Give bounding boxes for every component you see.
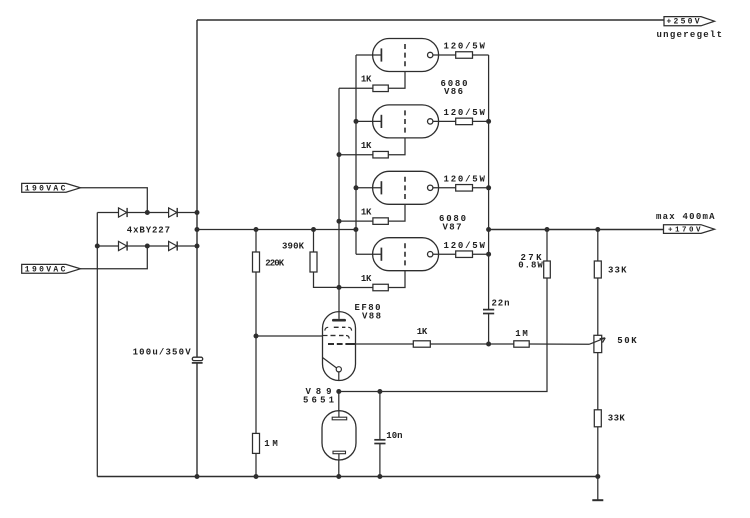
wire 1M to 50K wiper <box>529 343 589 345</box>
resistor 220K <box>253 252 260 272</box>
svg-text:4xBY227: 4xBY227 <box>127 226 170 236</box>
junction row2-left rail <box>95 244 100 249</box>
wire +250V raw supply top rail <box>197 19 664 21</box>
resistor 1K grid stopper V86b <box>373 151 388 158</box>
junction AC2-row2 <box>145 244 150 249</box>
svg-text:ungeregelt: ungeregelt <box>657 30 723 40</box>
wire +170V output line <box>489 229 664 231</box>
terminal 190VAC upper <box>22 183 81 193</box>
resistor 1K g1 stopper <box>413 341 430 347</box>
capacitor 10n <box>374 440 385 444</box>
wire 22n top lead <box>488 308 490 310</box>
junction ground V89 <box>336 474 341 479</box>
resistor 1M lower <box>253 433 260 453</box>
svg-text:V88: V88 <box>362 312 381 322</box>
potentiometer 50K <box>590 335 606 352</box>
triode 6080 V87a <box>356 171 456 204</box>
terminal +170V <box>664 225 715 235</box>
wire EF80 anode top lead <box>338 312 340 319</box>
wire 50K to 33K lower <box>597 353 599 410</box>
wire 27K top lead <box>546 230 548 262</box>
ground <box>592 477 603 501</box>
wire 1K to grid rail V86b <box>339 154 373 156</box>
junction cathode rail V87b <box>486 252 491 257</box>
junction grid rail 1K-4 / 390K <box>337 285 342 290</box>
junction ground 1M <box>254 474 259 479</box>
voltage reference tube 5651 V89 <box>322 411 356 460</box>
svg-text:10n: 10n <box>386 431 402 441</box>
wire 33K lower to ground rail <box>597 427 599 477</box>
resistor 120/5W cathode V87b <box>456 251 473 258</box>
junction AC1-row1 <box>145 210 150 215</box>
svg-text:22n: 22n <box>492 299 510 309</box>
svg-text:1K: 1K <box>361 75 372 85</box>
terminal +250V <box>664 17 715 27</box>
wire 10n top lead <box>379 392 381 440</box>
junction g1 22n <box>486 342 491 347</box>
junction +170V 27K <box>545 227 550 232</box>
junction row2-plus rail <box>195 244 200 249</box>
wire 120/5W to cathode rail V86a <box>473 54 489 56</box>
wire raw supply rail upper <box>196 20 198 357</box>
svg-text:50K: 50K <box>617 336 637 346</box>
svg-text:390K: 390K <box>282 242 305 252</box>
junction 10n top <box>377 389 382 394</box>
diode D3 <box>119 241 128 250</box>
label 27K 0.8W <box>518 253 543 271</box>
junction plate rail V87a <box>354 185 359 190</box>
svg-text:1K: 1K <box>417 327 428 337</box>
junction plate rail V86b <box>354 119 359 124</box>
pentode EF80 V88 <box>323 312 356 381</box>
terminal 190VAC lower <box>22 264 81 274</box>
junction +170V 33K <box>595 227 600 232</box>
wire 220K rail down <box>255 272 257 433</box>
capacitor 100u/350V <box>192 357 203 363</box>
resistor 120/5W cathode V87a <box>456 185 473 192</box>
svg-text:120/5W: 120/5W <box>444 108 486 118</box>
svg-text:1K: 1K <box>361 274 372 284</box>
resistor 33K upper <box>594 261 601 278</box>
capacitor 22n <box>483 310 494 344</box>
resistor 1K grid stopper V87b <box>373 284 388 291</box>
junction feed-plate rail <box>353 227 358 232</box>
svg-text:120/5W: 120/5W <box>444 241 486 251</box>
wire 390K top lead <box>313 230 315 253</box>
junction ground symbol <box>595 474 600 479</box>
wire g1 1K to 1M <box>430 343 514 345</box>
svg-text:V89: V89 <box>306 387 332 397</box>
resistor 1K grid stopper V87a <box>373 218 388 225</box>
svg-text:120/5W: 120/5W <box>444 174 486 184</box>
svg-text:33K: 33K <box>608 414 626 424</box>
wire diode row 2 <box>97 245 197 247</box>
resistor 1M feedback <box>514 341 529 347</box>
svg-text:1M: 1M <box>515 329 528 339</box>
resistor 120/5W cathode V86b <box>456 118 473 125</box>
label EF80 V88 <box>355 303 382 322</box>
junction grid rail 1K-2 <box>337 152 342 157</box>
wire 220K top lead <box>255 230 257 253</box>
label 6080 V86 <box>441 79 468 97</box>
wire 1M to ground rail <box>255 453 257 476</box>
junction EF80 cathode <box>336 389 341 394</box>
diode D2 <box>169 208 178 217</box>
junction cathode rail V86b <box>486 119 491 124</box>
wire 1K to grid rail V87a <box>339 220 373 222</box>
junction feed-220K <box>254 227 259 232</box>
wire grid lead V86a <box>388 72 405 89</box>
resistor 33K lower <box>594 410 601 427</box>
wire 190VAC upper feed <box>80 188 147 213</box>
diode D1 <box>119 208 128 217</box>
junction 220K rail EF80 g2 <box>254 334 259 339</box>
resistor 120/5W cathode V86a <box>456 52 473 59</box>
wire grid lead V87a <box>388 204 405 221</box>
svg-text:1K: 1K <box>361 141 372 151</box>
wire 6080 plate rail <box>355 55 357 254</box>
wire V89 bottom lead <box>338 460 340 477</box>
svg-text:V87: V87 <box>443 223 462 233</box>
junction row1-plus rail <box>195 210 200 215</box>
wire 390K to grid rail <box>314 272 340 287</box>
junction ground 10n <box>377 474 382 479</box>
svg-text:33K: 33K <box>608 266 627 276</box>
wire 33K to 50K <box>597 278 599 335</box>
triode 6080 V86b <box>356 105 456 138</box>
junction feed-390K <box>311 227 316 232</box>
wire 120/5W to cathode rail V86b <box>473 120 489 122</box>
wire EF80 g1 line <box>356 343 414 345</box>
wire 190VAC lower feed <box>80 246 147 269</box>
label 6080 V87 <box>439 214 466 233</box>
wire grid lead V86b <box>388 138 405 155</box>
svg-text:max 400mA: max 400mA <box>656 212 715 222</box>
junction cathode rail V87a <box>486 185 491 190</box>
wire diode row 1 <box>97 212 197 214</box>
wire 33K top lead <box>597 230 599 262</box>
wire 120/5W to cathode rail V87b <box>473 253 489 255</box>
junction cathode rail +170V <box>486 227 491 232</box>
junction grid rail 1K-3 <box>337 219 342 224</box>
wire 120/5W to cathode rail V87a <box>473 187 489 189</box>
resistor 1K grid stopper V86a <box>373 85 388 92</box>
label V89 5651 <box>303 387 335 405</box>
svg-text:0.8W: 0.8W <box>518 261 543 271</box>
wire 1K to grid rail V86a <box>339 87 373 89</box>
triode 6080 V87b <box>356 238 456 271</box>
svg-text:120/5W: 120/5W <box>444 42 486 52</box>
svg-text:220K: 220K <box>265 258 285 268</box>
wire grid lead V87b <box>388 271 405 288</box>
wire 10n bottom lead <box>379 444 381 477</box>
wire V89 top lead <box>338 392 340 411</box>
diode D4 <box>169 241 178 250</box>
wire EF80 g2 feed <box>256 335 323 337</box>
wire rectifier left rail <box>96 213 98 477</box>
wire raw supply rail lower <box>196 363 198 477</box>
triode 6080 V86a <box>356 39 456 72</box>
svg-text:100u/350V: 100u/350V <box>133 347 192 357</box>
wire 6080 cathode rail <box>488 55 490 309</box>
junction ground 100u <box>195 474 200 479</box>
resistor 390K EF80 anode load <box>310 252 317 272</box>
wire ground rail <box>97 476 598 478</box>
wire 1K to grid rail V87b <box>339 287 373 289</box>
junction feed-plus rail <box>195 227 200 232</box>
wire +250V feed to 6080 plates <box>197 229 356 231</box>
wire 6080 grid rail / EF80 anode rail <box>338 88 340 311</box>
svg-text:1K: 1K <box>361 208 372 218</box>
resistor 27K 0.8W <box>544 261 551 278</box>
wire 27K to EF80 cathode line <box>339 278 547 392</box>
svg-text:V86: V86 <box>444 87 463 97</box>
